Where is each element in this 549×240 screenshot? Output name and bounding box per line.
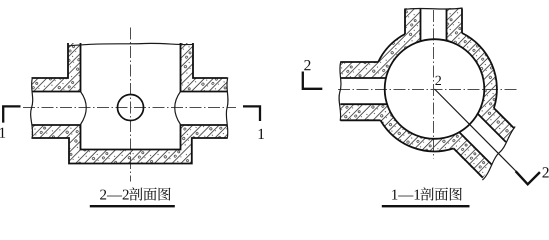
section mark 1 right bracket bbox=[243, 106, 260, 121]
west stub break line bbox=[339, 62, 341, 121]
break line top (wavy) bbox=[68, 43, 194, 46]
caption 1-1 bbox=[392, 190, 420, 200]
inner circle (chamber bore) bbox=[385, 39, 485, 139]
section mark 2 top-left bracket bbox=[303, 72, 323, 89]
label 2 (bottom-right) bbox=[542, 167, 548, 177]
north stub wall edges bbox=[405, 9, 462, 42]
outer circle arc south-west (between SE and W stubs) bbox=[381, 120, 454, 151]
SE stub wall edges bbox=[454, 108, 515, 178]
outer circle arc north-west (between W and N stubs) bbox=[378, 34, 405, 62]
break line left arm bbox=[31, 78, 33, 139]
north stub break line bbox=[405, 8, 463, 10]
centerline horizontal (right figure) bbox=[338, 89, 517, 91]
cutting trace 2-2 diagonal bbox=[435, 89, 516, 171]
wall outline bottom (pipe bottom walls + chamber base) bbox=[32, 125, 228, 164]
caption 2-2 bbox=[100, 190, 129, 200]
centerline vertical (left figure) bbox=[130, 28, 132, 182]
wall outline top-right L bbox=[181, 43, 228, 92]
bore/chamber intersection arc left bbox=[81, 92, 87, 125]
SE stub break line bbox=[482, 127, 515, 181]
label 2 (center, on trace) bbox=[435, 76, 441, 85]
label 1 (right) bbox=[259, 129, 264, 139]
label 1 (left, clipped at edge) bbox=[0, 128, 5, 138]
caption underline bbox=[382, 205, 470, 207]
caption CJK: pou mian tu bbox=[129, 187, 170, 200]
outer circle arc east (between N and SE stubs) bbox=[462, 33, 497, 108]
wall outline top-left L (chamber wall + pipe top wall) bbox=[32, 43, 81, 92]
centerline vertical (right figure) bbox=[433, 10, 435, 159]
caption underline bbox=[90, 205, 175, 207]
far pipe opening circle bbox=[118, 95, 144, 121]
bore/chamber intersection arc right bbox=[175, 92, 181, 125]
centerline horizontal (left figure) bbox=[23, 107, 236, 109]
section mark 2 bottom-right V bracket bbox=[516, 171, 540, 184]
caption CJK: pou mian tu bbox=[420, 187, 461, 200]
hatched walls (annulus + stub walls) bbox=[280, 0, 549, 209]
label 2 (top-left) bbox=[304, 60, 310, 70]
section mark 1 left bracket bbox=[3, 106, 20, 122]
west stub wall edges bbox=[340, 62, 387, 120]
hatched walls (concrete hatch) left figure bbox=[0, 0, 280, 209]
break line right arm bbox=[226, 78, 228, 139]
